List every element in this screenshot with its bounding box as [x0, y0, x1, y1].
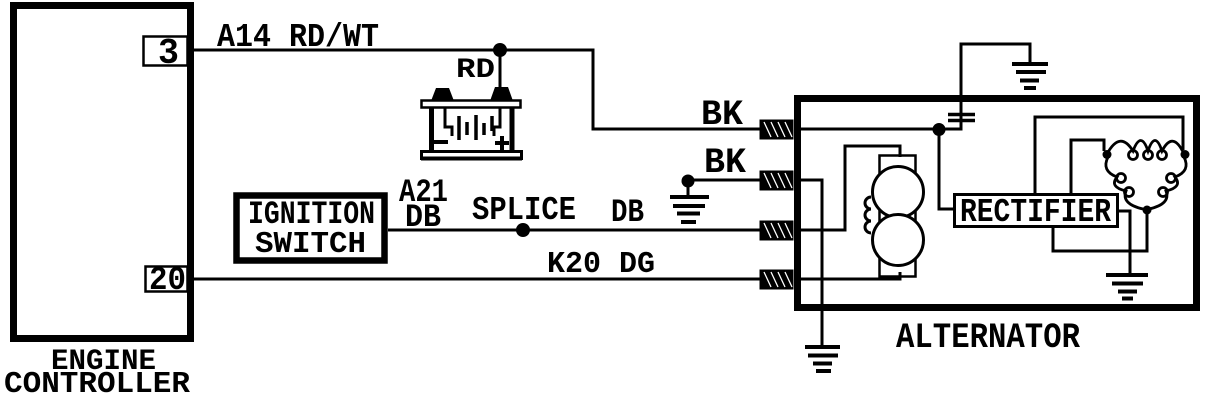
connector 2 BK: [760, 171, 794, 191]
wire BK2 stub to internal ground: [801, 180, 822, 346]
wire rectifier right to ground: [1118, 211, 1130, 273]
pin 20: [146, 262, 188, 299]
svg-text:3: 3: [158, 33, 179, 74]
stator winding top: [1107, 141, 1184, 160]
svg-text:DB: DB: [611, 194, 644, 231]
wire K20 DG from pin 20 to alternator: [190, 278, 762, 281]
stator winding left: [1106, 157, 1143, 209]
node stator right: [1181, 150, 1190, 159]
node junction dot: [933, 123, 946, 136]
wire rectifier top to stator left: [1071, 140, 1104, 194]
wire rectifier top to stator right: [1035, 117, 1183, 194]
svg-text:SWITCH: SWITCH: [255, 227, 366, 262]
wire A21 DB from ignition switch to alternator: [388, 229, 762, 232]
rectifier box U1: [955, 194, 1118, 231]
wire DG to rotor field bottom: [801, 272, 900, 279]
stator winding right: [1149, 157, 1186, 209]
engine controller box: [14, 6, 191, 339]
wire junction to capacitor and top ground: [939, 44, 1030, 129]
wire BK 2 to ground: [688, 180, 762, 196]
svg-text:A14 RD/WT: A14 RD/WT: [217, 19, 379, 56]
ground G3 below alternator: [805, 347, 840, 371]
alternator box: [798, 99, 1197, 308]
ground G1: [670, 197, 709, 222]
svg-text:BK: BK: [701, 95, 743, 135]
engine controller label: [4, 345, 190, 402]
svg-text:CONTROLLER: CONTROLLER: [4, 367, 190, 402]
svg-text:ALTERNATOR: ALTERNATOR: [896, 318, 1080, 358]
wire stator center to rectifier bottom: [1053, 214, 1147, 251]
svg-text:K20 DG: K20 DG: [547, 247, 655, 282]
ignition switch box: [237, 196, 385, 263]
rotor circle 2: [873, 215, 924, 266]
capacitor C1 plates: [948, 115, 975, 121]
wire to battery positive: [499, 50, 502, 90]
node splice dot: [516, 223, 530, 237]
node stator center: [1143, 206, 1152, 215]
battery B1: [421, 87, 522, 159]
connector 3 DB: [760, 221, 794, 241]
svg-text:BK: BK: [704, 143, 746, 183]
node stator left: [1103, 150, 1112, 159]
wire A14 RD/WT from pin 3 to alternator BK connector: [190, 50, 762, 129]
connector 4 DG: [760, 270, 794, 290]
connector 1 BK: [760, 120, 794, 140]
svg-text:RD: RD: [456, 55, 495, 86]
pin 3: [144, 33, 188, 74]
rotor circle 1: [873, 167, 924, 218]
svg-text:20: 20: [149, 262, 186, 299]
wire BK1 inside alternator to junction: [801, 128, 939, 131]
wire DB to rotor field top: [801, 146, 900, 230]
ground G2 top: [1012, 64, 1048, 88]
ground G4 rectifier: [1106, 275, 1148, 299]
brushes coil: [865, 197, 871, 233]
node BK ground dot: [682, 175, 695, 188]
wire junction down to rectifier: [939, 129, 954, 209]
rotor field frame: [880, 156, 916, 277]
svg-text:RECTIFIER: RECTIFIER: [960, 194, 1111, 231]
svg-text:DB: DB: [405, 199, 441, 236]
node splice on A14 wire: [493, 43, 507, 57]
